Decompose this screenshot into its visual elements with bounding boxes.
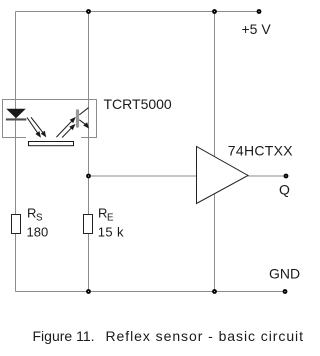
terminal +5V bbox=[257, 9, 262, 14]
LED D1 (emitter diode, anode triangle) bbox=[6, 109, 26, 119]
phototransistor emitter line with arrow bbox=[79, 120, 88, 128]
phototransistor collector line bbox=[79, 108, 88, 115]
emitted light arrow 1 bbox=[27, 118, 40, 137]
svg-text:+5 V: +5 V bbox=[242, 21, 272, 37]
wire left vertical (LED anode / RS branch) bbox=[15, 12, 17, 292]
svg-text:GND: GND bbox=[269, 266, 300, 282]
wire right vertical (supply drop to GND rail) bbox=[214, 12, 216, 292]
resistor RE body bbox=[84, 215, 93, 234]
LED cathode bar bbox=[6, 118, 26, 120]
reflective object bar bbox=[29, 142, 74, 146]
reflected light arrow 1 bbox=[56, 118, 74, 137]
wire bottom GND rail bbox=[16, 291, 286, 293]
sensor TCRT5000 package outline bbox=[3, 100, 97, 138]
svg-text:180: 180 bbox=[27, 225, 49, 240]
junction node top of supply drop bbox=[212, 9, 217, 14]
svg-text:Q: Q bbox=[279, 182, 290, 198]
wire gate input bbox=[89, 175, 197, 177]
resistor RS body bbox=[12, 215, 21, 234]
svg-text:15 k: 15 k bbox=[98, 225, 124, 240]
terminal Q output bbox=[284, 174, 289, 179]
svg-text:74HCTXX: 74HCTXX bbox=[228, 143, 293, 159]
junction node supply drop bottom bbox=[212, 289, 217, 294]
wire top +5V rail bbox=[16, 11, 260, 13]
junction node RE bottom bbox=[86, 289, 91, 294]
reflected light arrow 2 bbox=[62, 125, 74, 138]
op-amp buffer U1 74HCTXX triangle bbox=[197, 147, 249, 204]
wire middle vertical (phototransistor / RE branch) bbox=[88, 12, 90, 292]
phototransistor Q1 base bar bbox=[76, 109, 79, 127]
svg-text:Reflex sensor - basic circuit: Reflex sensor - basic circuit bbox=[106, 328, 304, 344]
junction node top of RE branch bbox=[86, 9, 91, 14]
terminal GND bbox=[283, 289, 288, 294]
junction node emitter / gate input bbox=[86, 174, 91, 179]
wire gate output Q bbox=[248, 175, 286, 177]
svg-text:TCRT5000: TCRT5000 bbox=[104, 96, 172, 112]
svg-text:Figure 11.: Figure 11. bbox=[33, 328, 95, 344]
emitted light arrow 2 bbox=[31, 117, 46, 136]
